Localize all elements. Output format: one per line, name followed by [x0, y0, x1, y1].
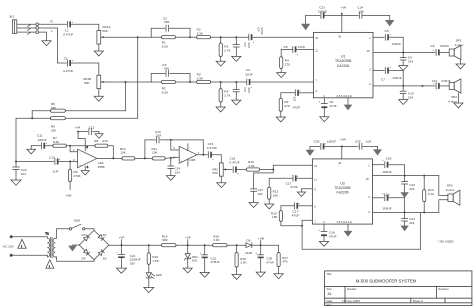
svg-text:4558: 4558 [98, 165, 105, 169]
capacitor C13 224 [155, 130, 161, 143]
capacitor C27 102 [251, 188, 264, 196]
capacitor C5 100uF bootstrap [373, 29, 401, 46]
capacitor C4' 22uF [245, 68, 253, 89]
svg-text:C9: C9 [431, 44, 435, 48]
junction R13 top [423, 175, 425, 177]
diode D6 4148 [245, 238, 261, 255]
svg-text:+VB: +VB [258, 237, 264, 241]
svg-text:D2: D2 [103, 257, 107, 261]
wire pin16 to +VA rail [341, 15, 343, 32]
resistor R12 150 [268, 187, 279, 199]
svg-text:150: 150 [272, 215, 277, 219]
wire R5 right [65, 110, 125, 112]
svg-text:KA2206: KA2206 [336, 191, 348, 195]
svg-text:KA2206: KA2206 [337, 64, 349, 68]
svg-text:-: - [181, 150, 182, 153]
resistor R19 3.3K [235, 245, 248, 267]
resistor R1' 8.2K [151, 80, 190, 94]
svg-text:+VB: +VB [66, 194, 72, 198]
svg-text:150: 150 [273, 194, 278, 198]
ground C3' [232, 92, 241, 105]
ground VR1A [94, 44, 103, 56]
warning symbol input [18, 239, 26, 248]
resistor R9 470K bias [69, 162, 82, 182]
svg-text:0.47UF: 0.47UF [207, 146, 217, 150]
junction out2 [402, 85, 404, 87]
svg-text:0.47UF: 0.47UF [63, 33, 73, 37]
svg-text:100UF: 100UF [382, 207, 391, 211]
resistor R10 10K [120, 147, 135, 160]
junction R19 [236, 244, 238, 246]
svg-text:4,5,6 (12,13): 4,5,6 (12,13) [337, 220, 352, 224]
resistor R2' 3.3K [190, 73, 211, 84]
junction U2B inv [170, 139, 172, 141]
svg-text:47UF: 47UF [298, 45, 306, 49]
svg-text:9V1: 9V1 [192, 259, 198, 263]
ground jack [42, 41, 51, 46]
resistor R6 33K mixer [50, 117, 65, 133]
svg-text:2.7K: 2.7K [224, 49, 231, 53]
svg-text:R8: R8 [94, 139, 98, 143]
ground R17 [274, 267, 283, 279]
svg-text:33K: 33K [51, 128, 57, 132]
svg-text:D6: D6 [247, 238, 251, 242]
junction out2b [421, 85, 423, 87]
svg-text:5.1K: 5.1K [428, 192, 435, 196]
wire VR2 wiper [227, 169, 233, 171]
ground U3 power pins [344, 224, 353, 237]
svg-text:680: 680 [162, 238, 167, 242]
svg-text:47UF: 47UF [266, 260, 274, 264]
U3 pin8 ground [297, 189, 312, 197]
svg-text:D3: D3 [82, 233, 86, 237]
JK1 contact R [17, 24, 36, 26]
wire U3 out2 pin2 [373, 211, 439, 213]
svg-text:47UF: 47UF [329, 234, 337, 238]
svg-text:C3: C3 [243, 43, 247, 47]
wire C16 to R15 [237, 169, 246, 171]
ground R3 [216, 57, 225, 67]
capacitor C2 682 parallel [151, 16, 190, 37]
ground C28 [256, 258, 265, 277]
svg-text:47UF: 47UF [293, 105, 301, 109]
svg-text:L: L [51, 29, 53, 33]
ground rail left [301, 15, 310, 30]
ground R12 [265, 199, 274, 209]
capacitor C23 224 shunt [402, 212, 416, 225]
wire C11 to SP2 [440, 85, 450, 87]
svg-text:104: 104 [358, 10, 363, 14]
svg-text:224: 224 [156, 134, 161, 138]
svg-text:Date:: Date: [327, 299, 334, 303]
resistor R4 270 [280, 49, 293, 68]
diode D2 [98, 250, 107, 261]
capacitor C9 470uF coupling [431, 44, 450, 55]
svg-text:-: - [80, 153, 81, 156]
svg-text:223: 223 [247, 43, 251, 48]
svg-text:C1': C1' [64, 56, 69, 60]
speaker SP2 4ohm [448, 79, 461, 103]
wire switch to bridge [85, 229, 94, 231]
resistor R2 3.3K [190, 28, 211, 39]
svg-text:104: 104 [175, 170, 180, 174]
AC input terminal bottom [10, 254, 13, 257]
capacitor C4 22uF [249, 28, 264, 45]
ground SP2 [454, 93, 463, 108]
resistor R5 33K mixer [50, 102, 65, 112]
svg-text:1.5K: 1.5K [152, 259, 159, 263]
svg-text:50K: 50K [102, 29, 108, 33]
resistor R7 8.2K [45, 136, 66, 147]
junction U3 out1 [404, 175, 406, 177]
svg-text:470UF: 470UF [440, 44, 449, 48]
svg-text:0.47UF: 0.47UF [63, 69, 73, 73]
svg-text:47UF: 47UF [292, 213, 300, 217]
diode D4 [82, 249, 90, 260]
feedback riser C13 [145, 140, 155, 159]
junction inverting [69, 145, 71, 147]
capacitor C8 47uF feedback [284, 45, 314, 57]
node circle R [36, 23, 39, 26]
svg-text:8.2K: 8.2K [162, 91, 169, 95]
ground C6 [320, 106, 329, 121]
svg-text:8.2K: 8.2K [162, 45, 169, 49]
svg-text:3.3K: 3.3K [197, 32, 204, 36]
svg-text:15-Nov-2003: 15-Nov-2003 [342, 299, 360, 303]
svg-text:C7: C7 [381, 77, 385, 81]
wire R2' to node [211, 81, 247, 83]
svg-text:100UF: 100UF [392, 42, 401, 46]
ground C6 224 [399, 60, 408, 71]
resistor R13 5.1K [423, 176, 436, 213]
svg-text:224: 224 [409, 221, 414, 225]
svg-text:Number: Number [347, 287, 357, 291]
svg-text:U3: U3 [340, 181, 344, 185]
ground R3' [216, 102, 225, 112]
net label +VB at R9 [66, 182, 72, 198]
op-amp U1 box TEA2025B [314, 32, 374, 97]
wire mixer left join [32, 111, 50, 119]
ground LED [144, 278, 154, 293]
svg-text:100UF: 100UF [318, 10, 327, 14]
svg-text:16: 16 [338, 161, 341, 165]
junction C20 node [15, 161, 17, 163]
junction L tap [125, 81, 127, 83]
svg-text:C18: C18 [386, 157, 392, 161]
ground SP1 [456, 60, 465, 69]
ground R4 [277, 69, 286, 78]
svg-text:3.3K: 3.3K [197, 76, 204, 80]
resistor R14 680 [162, 234, 177, 247]
U2A pin 4 ground [81, 165, 89, 175]
title block frame [325, 271, 472, 306]
svg-text:682: 682 [164, 20, 169, 24]
capacitor C25 100uF [314, 139, 337, 149]
svg-text:3.3K: 3.3K [240, 261, 247, 265]
capacitor C3 223 [233, 37, 251, 48]
wire bridge output rail [109, 244, 162, 246]
wire to SP3 top [439, 176, 448, 196]
capacitor C15 0.47uF [207, 142, 217, 161]
wire L channel down [39, 28, 67, 63]
wire C18 to output [388, 165, 404, 176]
svg-text:270: 270 [284, 104, 289, 108]
junction filter [144, 157, 146, 159]
svg-text:D1: D1 [103, 233, 107, 237]
wire mixer to C10 node [16, 118, 50, 161]
svg-text:* NO USED: * NO USED [438, 239, 455, 243]
potentiometer VR1A 50K [97, 25, 111, 44]
svg-text:+VA: +VA [185, 235, 192, 239]
wire R7 to inverting node [67, 145, 95, 147]
wire to SP3 bottom [439, 200, 448, 213]
switch SW1 [69, 219, 85, 230]
ground VR2 [217, 176, 226, 187]
svg-text:JK1: JK1 [9, 15, 15, 19]
capacitor C10 1uF [49, 155, 61, 173]
svg-text:AC 12V: AC 12V [3, 244, 15, 248]
capacitor C8' 47uF feedback [293, 89, 314, 109]
resistor R16 1.5K [147, 245, 160, 264]
net label +VP [119, 235, 125, 246]
capacitor C7 100uF bootstrap [373, 67, 402, 82]
svg-text:47K: 47K [282, 260, 288, 264]
junction bridge return [301, 225, 303, 227]
svg-text:C4: C4 [256, 28, 260, 32]
svg-text:224: 224 [408, 60, 413, 64]
svg-text:8.2K: 8.2K [53, 140, 60, 144]
svg-text:C19: C19 [384, 193, 390, 197]
wire R8 to output [108, 146, 113, 159]
svg-text:LED: LED [156, 273, 163, 277]
ground R4' [276, 111, 285, 122]
ground C22 470 [200, 258, 209, 277]
capacitor C11 100uF [31, 134, 47, 149]
svg-text:22UF: 22UF [245, 73, 253, 77]
JK1 contact ring [17, 28, 36, 30]
svg-text:47K: 47K [102, 139, 108, 143]
svg-text:11: 11 [314, 178, 317, 182]
svg-text:SW1: SW1 [74, 219, 81, 223]
svg-text:47UF: 47UF [290, 185, 298, 189]
ground C22 [400, 184, 408, 198]
junction mixer [31, 117, 33, 119]
capacitor C2' 682 parallel [151, 63, 190, 82]
wire node to C10 [16, 161, 54, 163]
LED D5 [146, 264, 162, 278]
capacitor C19 100uF bootstrap [373, 192, 392, 210]
svg-text:M-500 SUBWOOFER SYSTEM: M-500 SUBWOOFER SYSTEM [356, 279, 417, 284]
svg-text:Title: Title [327, 272, 332, 276]
svg-text:100UF: 100UF [327, 139, 336, 143]
svg-text:104: 104 [366, 139, 371, 143]
resistor R1 8.2K [151, 36, 190, 49]
capacitor C24 104 [358, 6, 364, 19]
ground C16 U3 [319, 234, 328, 246]
junction after R1' [189, 81, 191, 83]
U3 pin labels [314, 161, 370, 224]
svg-text:10K: 10K [152, 151, 158, 155]
svg-text:224: 224 [409, 187, 414, 191]
capacitor C21 2200uF 16V [116, 245, 141, 265]
op-amp U3 box TEA2025B [312, 159, 372, 224]
net label +VA power [185, 235, 192, 246]
svg-text:SP2: SP2 [451, 95, 457, 99]
junction after R1 [189, 36, 191, 38]
svg-text:C10: C10 [49, 155, 55, 159]
capacitor C16 47uF U3 pin4 [318, 224, 336, 238]
wire C1' to VR1B [71, 63, 99, 75]
wire R channel to C1 [39, 23, 67, 25]
wire U1 out1 pin15 [373, 51, 435, 53]
svg-text:16V: 16V [130, 261, 136, 265]
resistor R18 3.3K [213, 234, 228, 247]
wire R18 to D6 [227, 244, 246, 246]
wire R15 to U3 pin10 [260, 165, 313, 169]
junction C3 [235, 36, 237, 38]
svg-text:C8': C8' [293, 97, 297, 102]
resistor R15 3.3K [246, 160, 260, 171]
ground VR1B [94, 89, 103, 102]
svg-text:10: 10 [315, 36, 318, 40]
wire C4' to U1 pin7 [250, 81, 313, 83]
svg-text:8 ohm: 8 ohm [446, 188, 455, 192]
resistor R11 10K [152, 147, 166, 160]
svg-text:224: 224 [408, 96, 413, 100]
title block texts [327, 272, 450, 306]
junction R3 [220, 36, 222, 38]
wire L tap down to R5 [125, 82, 127, 111]
capacitor C20 104 [13, 162, 27, 177]
potentiometer VR2 50K [212, 163, 227, 176]
svg-text:1UF: 1UF [53, 169, 59, 173]
ground C20 [11, 170, 21, 186]
svg-text:T1: T1 [45, 231, 49, 235]
svg-text:Sheet of: Sheet of [413, 299, 423, 303]
wire VR1A wiper to network [104, 36, 151, 38]
svg-text:C11: C11 [432, 79, 438, 83]
ground U3 rail left [306, 146, 315, 156]
zener ZD1 9V1 [185, 245, 199, 262]
svg-text:100UF: 100UF [392, 76, 401, 80]
svg-text:+VA: +VA [341, 6, 348, 10]
svg-text:C8: C8 [284, 45, 288, 49]
wire bridge return wrap [302, 212, 421, 249]
svg-text:+VA: +VA [340, 137, 347, 141]
speaker SP1 4ohm [449, 39, 464, 60]
ground C3 [232, 47, 241, 61]
capacitor C23 100uF [318, 6, 327, 19]
junction U3 out2 [404, 211, 406, 213]
op-amp U2B 4558 [179, 144, 200, 166]
wire C4 to U1 pin10 [252, 36, 313, 38]
wire fb to pin6 [171, 140, 179, 150]
svg-text:0.47UF: 0.47UF [230, 161, 240, 165]
svg-text:3.3K: 3.3K [213, 238, 220, 242]
capacitor C1' 0.47uF [63, 56, 74, 73]
wire C9 to SP1 [440, 51, 450, 53]
ground rail right [385, 15, 394, 26]
ground U3 rail right [373, 146, 382, 155]
U2A pin 8 supply [78, 132, 88, 151]
capacitor C16 0.47uF [230, 157, 240, 176]
bridge rectifier frame [79, 230, 109, 259]
ground bridge [68, 245, 79, 251]
wire C17 to R12 [269, 178, 292, 187]
svg-text:2.7K: 2.7K [224, 94, 231, 98]
transformer T1 [45, 231, 55, 257]
speaker SP3 8ohm [446, 184, 460, 206]
svg-text:SP3: SP3 [447, 184, 453, 188]
svg-text:50K: 50K [212, 171, 218, 175]
resistor R4' 270 [279, 93, 295, 111]
svg-text:Size: Size [327, 287, 333, 291]
wire pin16 U3 to +VA rail [341, 146, 343, 159]
wire AC bottom [13, 254, 48, 256]
wire U2A out [97, 157, 122, 159]
wire AC top [13, 236, 48, 238]
svg-text:A4: A4 [328, 292, 332, 296]
svg-text:TEA2025B: TEA2025B [334, 186, 351, 190]
svg-text:50K: 50K [84, 81, 90, 85]
ground C11 input [27, 146, 36, 154]
svg-text:4148: 4148 [245, 251, 252, 255]
diode D3 [82, 233, 90, 241]
ground U1 power pins [344, 98, 353, 111]
resistor R17 47K [261, 245, 289, 267]
resistor R12' 150 [271, 206, 294, 222]
wire C5 to output [389, 37, 403, 52]
warning symbol transformer [46, 260, 54, 269]
node circle sleeve [36, 31, 39, 34]
junction R tap [137, 36, 139, 38]
svg-text:22UF: 22UF [260, 28, 264, 36]
wire C15 to VR2 [212, 155, 221, 163]
svg-text:102: 102 [257, 192, 262, 196]
svg-text:+VA: +VA [75, 126, 82, 130]
connector JK1 jack body [12, 20, 16, 34]
potentiometer VR1B 50K [83, 75, 104, 89]
svg-text:270: 270 [285, 62, 290, 66]
capacitor C10 224 shunt [400, 86, 414, 100]
ground C10 224 [399, 94, 408, 105]
svg-text:C4': C4' [246, 68, 251, 72]
junction C22 470 [204, 244, 206, 246]
wire U2B out [197, 154, 207, 156]
junction C14 [170, 157, 172, 159]
wire R2 to node [211, 36, 249, 38]
wire C1 to VR1A [71, 24, 99, 30]
svg-text:100UF: 100UF [37, 138, 46, 142]
junction C3' [235, 81, 237, 83]
net label +VB [258, 237, 264, 247]
capacitor C14 104 [168, 158, 181, 174]
capacitor C22 470uF [199, 245, 219, 264]
junction U3 input [272, 169, 274, 171]
wire R6 right [65, 117, 137, 119]
wire R tap down to R6 [137, 37, 139, 118]
svg-text:682: 682 [164, 67, 169, 71]
svg-text:C12: C12 [89, 126, 95, 130]
wire U2B fb top [202, 140, 204, 155]
svg-text:+VP: +VP [119, 235, 125, 239]
svg-text:470K: 470K [74, 174, 82, 178]
junction out1 [402, 51, 404, 53]
wire C19 to output [388, 198, 404, 213]
ground C27 [249, 191, 258, 207]
resistor R8 47K feedback [94, 139, 108, 147]
svg-text:16: 16 [338, 35, 341, 39]
